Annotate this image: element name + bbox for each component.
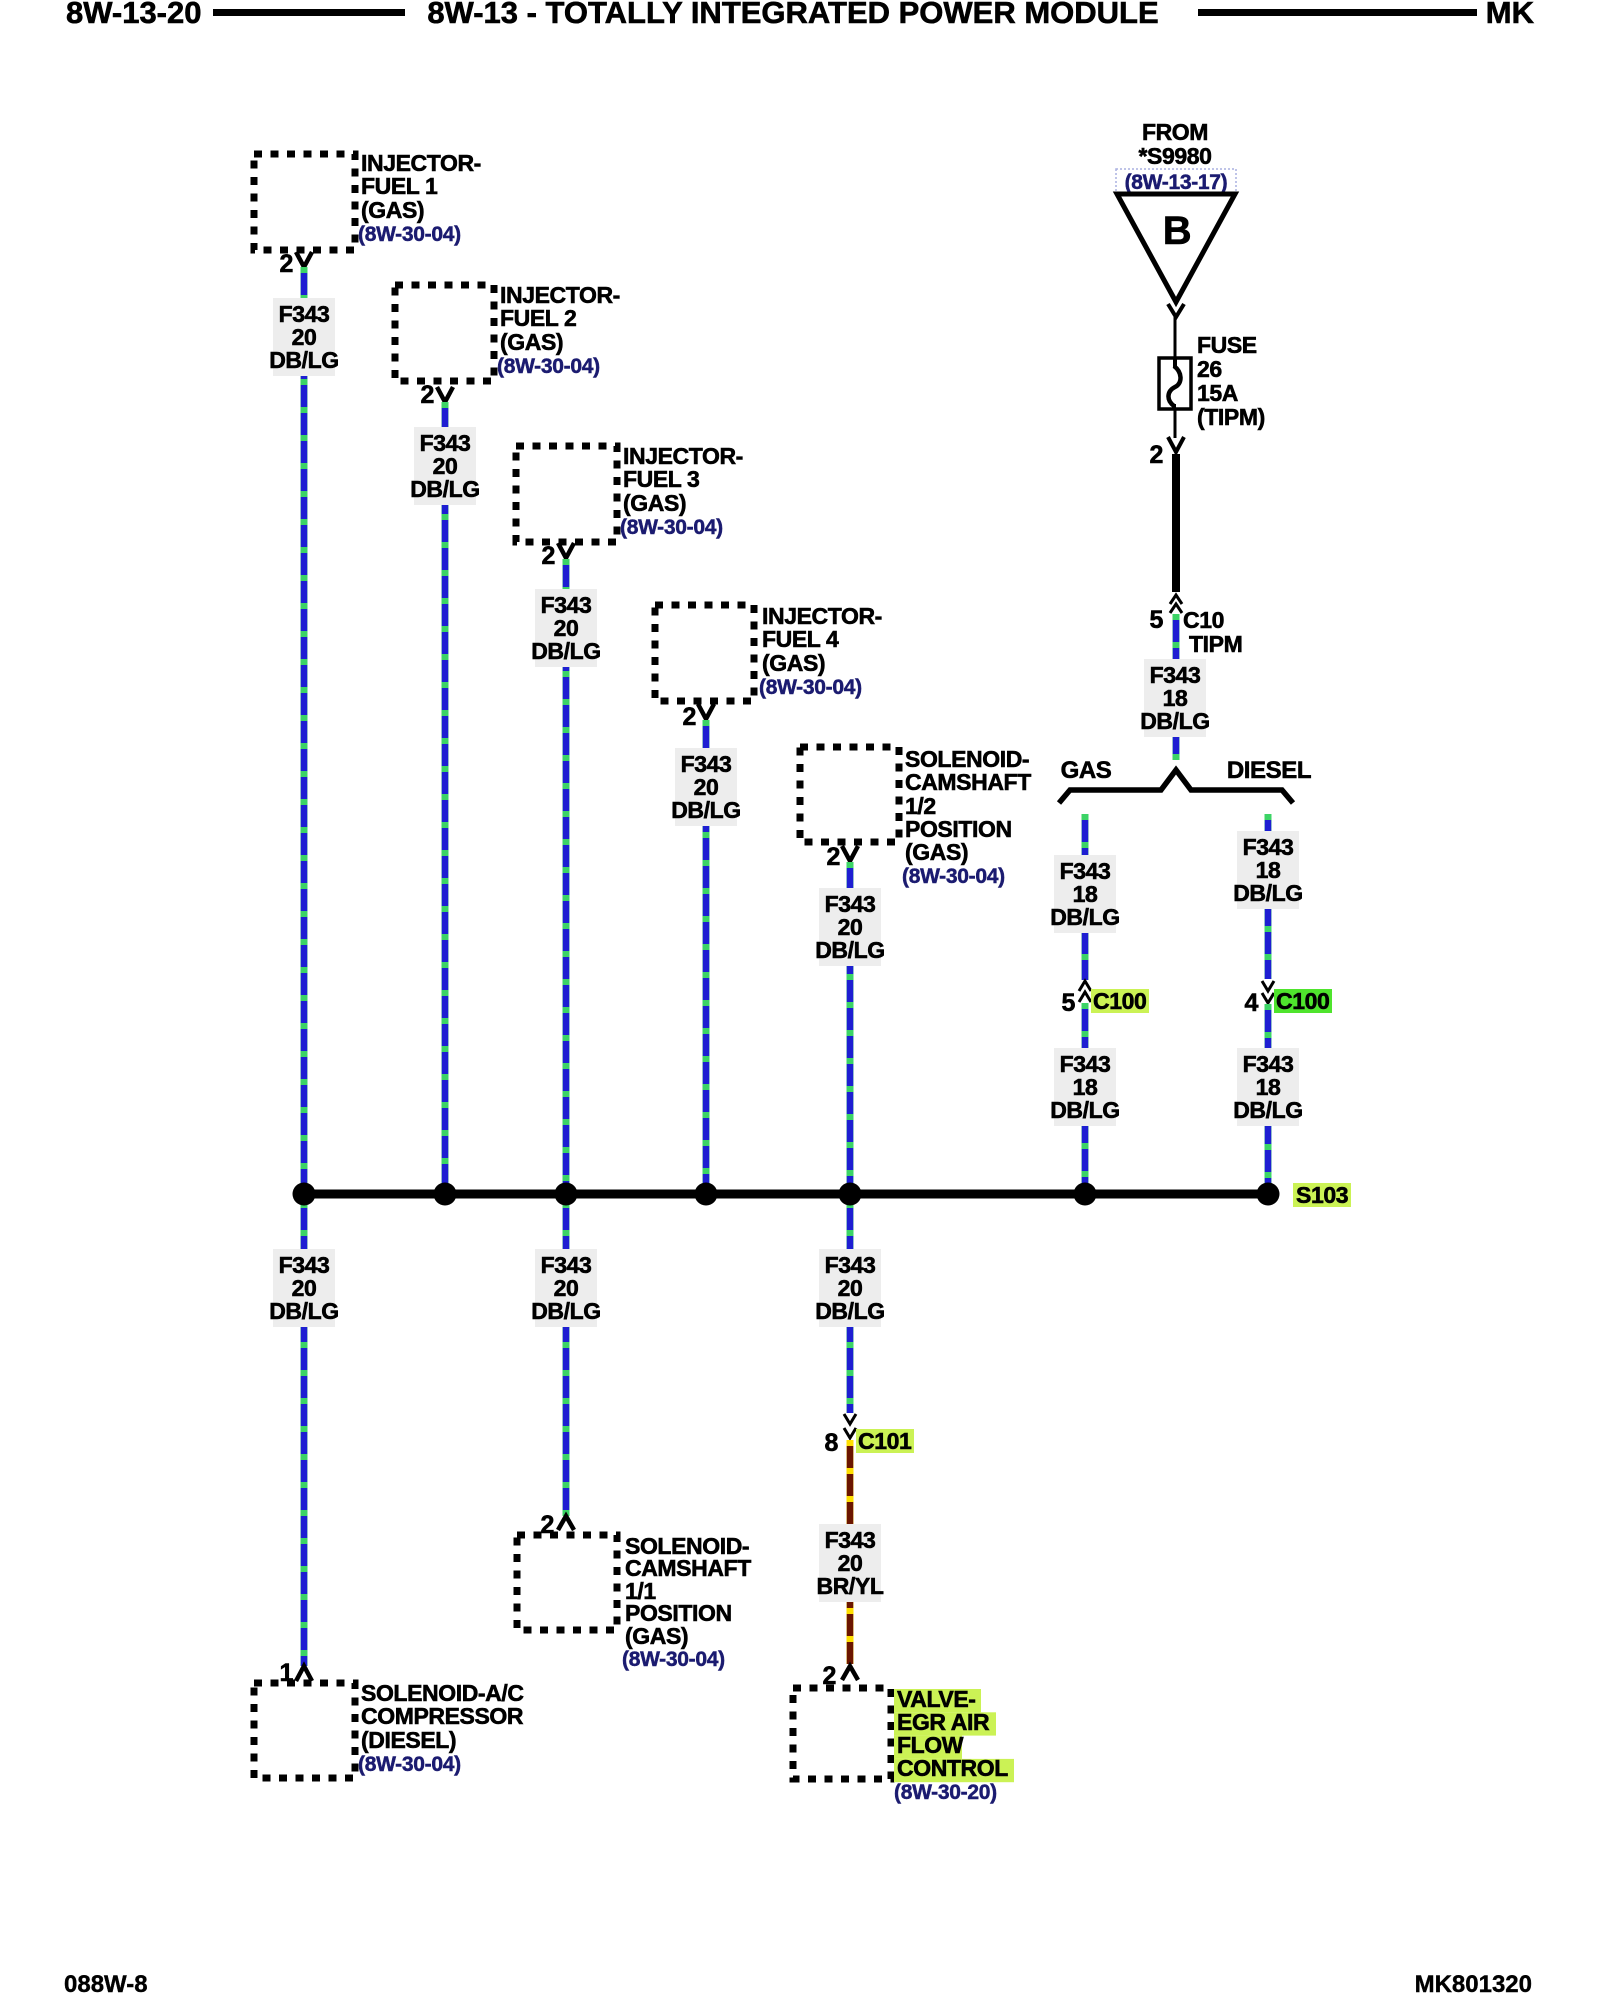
label SOLENOID-CAMSHAFT 1/1 — [622, 1533, 751, 1671]
wire label F343 18 DB/LG feeder — [1140, 659, 1210, 737]
svg-text:2: 2 — [541, 542, 555, 570]
splice label S103 — [1293, 1182, 1351, 1208]
svg-text:088W-8: 088W-8 — [64, 1971, 148, 1998]
svg-text:4: 4 — [1244, 989, 1258, 1017]
svg-text:2: 2 — [420, 381, 434, 409]
wire label F343 18 DB/LG diesel upper — [1233, 831, 1303, 909]
wire label F343 20 DB/LG col2 — [410, 427, 480, 505]
junction dot 3 — [555, 1183, 578, 1206]
component INJECTOR-FUEL 1 (GAS) — [254, 154, 355, 250]
svg-text:*S9980: *S9980 — [1138, 143, 1211, 169]
svg-text:MK801320: MK801320 — [1415, 1971, 1532, 1998]
junction dot 1 — [293, 1183, 316, 1206]
fuse label — [1197, 332, 1265, 430]
svg-text:2: 2 — [682, 703, 696, 731]
svg-text:BR/YL: BR/YL — [816, 1573, 883, 1599]
arrow into camshaft 1/1 solenoid — [558, 1516, 574, 1530]
svg-text:DB/LG: DB/LG — [269, 1298, 339, 1324]
svg-text:5: 5 — [1061, 989, 1075, 1017]
component SOLENOID-A/C COMPRESSOR (DIESEL) — [254, 1683, 355, 1778]
svg-text:(8W-30-20): (8W-30-20) — [894, 1781, 997, 1804]
svg-text:DB/LG: DB/LG — [1050, 904, 1120, 930]
svg-text:(8W-30-04): (8W-30-04) — [902, 865, 1005, 888]
svg-text:GAS: GAS — [1061, 757, 1112, 784]
arrow into pin 2 — [1168, 437, 1184, 452]
junction dot 2 — [434, 1183, 457, 1206]
wire label F343 20 BR/YL — [816, 1524, 883, 1602]
svg-text:(DIESEL): (DIESEL) — [361, 1727, 456, 1753]
wire label F343 18 DB/LG diesel lower — [1233, 1048, 1303, 1126]
svg-text:2: 2 — [826, 843, 840, 871]
label INJECTOR-FUEL 1 — [358, 150, 481, 246]
wire F343 col3 lower — [563, 1202, 570, 1516]
connector C101 arrows — [844, 1414, 856, 1438]
svg-text:8W-13 - TOTALLY INTEGRATED POW: 8W-13 - TOTALLY INTEGRATED POWER MODULE — [427, 0, 1158, 30]
svg-text:5: 5 — [1149, 606, 1163, 634]
arrow below triangle — [1168, 304, 1184, 317]
junction dot 4 — [695, 1183, 718, 1206]
component SOLENOID-CAMSHAFT 1/1 POSITION (GAS) — [517, 1535, 617, 1630]
label SOLENOID-A/C COMPRESSOR — [358, 1680, 524, 1776]
wire F343 18 DB/LG from C10 — [1173, 614, 1180, 760]
svg-text:DB/LG: DB/LG — [671, 797, 741, 823]
svg-text:(8W-30-04): (8W-30-04) — [620, 516, 723, 539]
svg-text:(TIPM): (TIPM) — [1197, 404, 1265, 430]
bus splice S103 — [304, 1190, 1268, 1199]
svg-text:(8W-30-04): (8W-30-04) — [622, 1648, 725, 1671]
wire F343 col4 — [703, 720, 710, 1190]
svg-text:DB/LG: DB/LG — [1233, 1097, 1303, 1123]
svg-text:FUEL 4: FUEL 4 — [762, 626, 839, 652]
component SOLENOID-CAMSHAFT 1/2 POSITION (GAS) — [800, 747, 899, 842]
label INJECTOR-FUEL 2 — [497, 282, 620, 378]
svg-text:DB/LG: DB/LG — [269, 347, 339, 373]
component INJECTOR-FUEL 3 (GAS) — [516, 446, 617, 542]
wire below fuse — [1174, 409, 1177, 438]
component INJECTOR-FUEL 2 (GAS) — [395, 285, 494, 381]
arrow out of injector 3 — [558, 543, 574, 558]
wire F343 col3 upper — [563, 559, 570, 1190]
svg-text:(GAS): (GAS) — [762, 650, 825, 676]
label VALVE-EGR AIR FLOW CONTROL highlighted — [894, 1686, 1014, 1804]
svg-text:MK: MK — [1486, 0, 1535, 30]
svg-text:(GAS): (GAS) — [905, 839, 968, 865]
connector C100 label diesel highlighted — [1274, 988, 1332, 1014]
svg-text:FUEL 1: FUEL 1 — [361, 173, 438, 199]
connector C10 label — [1183, 607, 1242, 657]
svg-text:DB/LG: DB/LG — [531, 1298, 601, 1324]
svg-text:C10: C10 — [1183, 607, 1224, 633]
svg-text:(8W-30-04): (8W-30-04) — [358, 1753, 461, 1776]
svg-text:FUSE: FUSE — [1197, 332, 1257, 358]
svg-text:DB/LG: DB/LG — [815, 937, 885, 963]
svg-text:2: 2 — [1149, 441, 1163, 469]
off-page connector B triangle — [1117, 194, 1235, 302]
junction dot 6 — [1074, 1183, 1097, 1206]
wire DIESEL branch lower — [1265, 1004, 1272, 1188]
wire GAS branch upper — [1082, 814, 1089, 980]
component INJECTOR-FUEL 4 (GAS) — [655, 605, 754, 701]
wire F343 20 BR/YL upper — [847, 1440, 854, 1664]
label INJECTOR-FUEL 4 — [759, 603, 882, 699]
wire F343 col5 lower — [847, 1202, 854, 1413]
wire F343 col1 lower — [301, 1202, 308, 1666]
svg-text:DB/LG: DB/LG — [1233, 880, 1303, 906]
svg-text:2: 2 — [279, 250, 293, 278]
svg-text:DIESEL: DIESEL — [1227, 757, 1311, 784]
svg-text:26: 26 — [1197, 356, 1222, 382]
wire label F343 20 DB/LG col5 below bus — [815, 1249, 885, 1327]
wire F343 col5 upper — [847, 862, 854, 1190]
arrow out of injector 1 — [296, 252, 312, 267]
svg-text:(GAS): (GAS) — [623, 490, 686, 516]
link 8W-13-17 — [1116, 169, 1236, 196]
junction dot 5 — [839, 1183, 862, 1206]
svg-text:CAMSHAFT: CAMSHAFT — [905, 769, 1031, 795]
connector C101 label — [856, 1428, 914, 1454]
svg-text:C100: C100 — [1093, 988, 1146, 1014]
svg-text:(GAS): (GAS) — [500, 329, 563, 355]
svg-text:(8W-30-04): (8W-30-04) — [358, 223, 461, 246]
svg-text:DB/LG: DB/LG — [410, 476, 480, 502]
svg-text:CONTROL: CONTROL — [897, 1755, 1008, 1781]
wire label F343 18 DB/LG gas lower — [1050, 1048, 1120, 1126]
svg-text:DB/LG: DB/LG — [531, 638, 601, 664]
arrow into A/C compressor — [296, 1666, 312, 1681]
svg-text:C100: C100 — [1276, 988, 1329, 1014]
svg-text:(8W-30-04): (8W-30-04) — [759, 676, 862, 699]
connector C100 label gas — [1091, 988, 1149, 1014]
brace GAS/DIESEL split — [1059, 770, 1293, 803]
junction dot 7 — [1257, 1183, 1280, 1206]
svg-text:8: 8 — [824, 1429, 838, 1457]
header rule right — [1198, 9, 1477, 16]
arrow out of injector 2 — [437, 387, 453, 402]
header rule left — [213, 9, 405, 16]
wire F343 col1 upper — [301, 267, 308, 1190]
connector C100 arrows gas — [1079, 981, 1091, 1002]
wire label F343 20 DB/LG col4 — [671, 748, 741, 826]
svg-text:TIPM: TIPM — [1189, 631, 1242, 657]
wire label F343 20 DB/LG col5 — [815, 888, 885, 966]
wire label F343 20 DB/LG col3 below bus — [531, 1249, 601, 1327]
node FROM *S9980 — [1138, 119, 1211, 169]
wire DIESEL branch upper — [1265, 814, 1272, 979]
svg-text:COMPRESSOR: COMPRESSOR — [361, 1703, 524, 1729]
label INJECTOR-FUEL 3 — [620, 443, 743, 539]
arrow out of camshaft 1/2 solenoid — [842, 846, 858, 861]
svg-text:15A: 15A — [1197, 380, 1238, 406]
svg-text:FUEL 2: FUEL 2 — [500, 305, 576, 331]
svg-text:S103: S103 — [1296, 1182, 1348, 1208]
svg-text:FUEL 3: FUEL 3 — [623, 466, 699, 492]
svg-text:(GAS): (GAS) — [361, 197, 424, 223]
wire label F343 20 DB/LG col1 below bus — [269, 1249, 339, 1327]
svg-text:(8W-30-04): (8W-30-04) — [497, 355, 600, 378]
svg-text:(GAS): (GAS) — [625, 1623, 688, 1649]
svg-text:8W-13-20: 8W-13-20 — [66, 0, 202, 30]
wire label F343 20 DB/LG col3 — [531, 589, 601, 667]
wire label F343 18 DB/LG gas upper — [1050, 855, 1120, 933]
arrow into EGR valve — [842, 1666, 858, 1680]
wire label F343 20 DB/LG col1 — [269, 298, 339, 376]
fuse 26 15A — [1159, 358, 1191, 409]
wire to fuse — [1174, 317, 1177, 360]
wire F343 col2 — [442, 402, 449, 1190]
connector C100 arrows diesel — [1262, 981, 1274, 1003]
connector C10 arrows — [1170, 595, 1182, 613]
svg-text:DB/LG: DB/LG — [1050, 1097, 1120, 1123]
svg-text:C101: C101 — [858, 1428, 912, 1454]
thick feed wire — [1172, 454, 1180, 592]
svg-text:DB/LG: DB/LG — [1140, 708, 1210, 734]
svg-text:(8W-13-17): (8W-13-17) — [1125, 171, 1228, 194]
svg-text:DB/LG: DB/LG — [815, 1298, 885, 1324]
label SOLENOID-CAMSHAFT 1/2 — [902, 746, 1031, 888]
arrow out of injector 4 — [698, 704, 714, 719]
svg-text:FROM: FROM — [1142, 119, 1208, 145]
component VALVE-EGR AIR FLOW CONTROL — [793, 1688, 891, 1779]
wire GAS branch lower — [1082, 1003, 1089, 1188]
svg-text:B: B — [1163, 209, 1192, 253]
